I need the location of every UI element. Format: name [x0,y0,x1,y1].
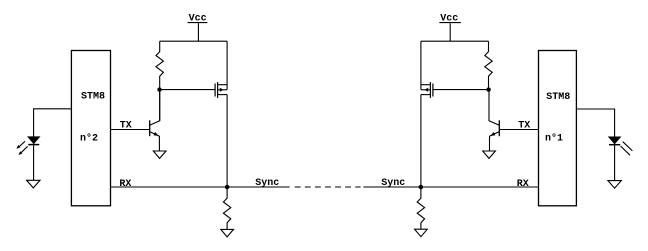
LED D1 cathode bar [609,144,620,146]
MOSFET T2 body arrow [220,88,224,92]
transistor Q2 (NPN) base bar [149,120,151,136]
Vcc right vertical stub [449,23,451,41]
svg-text:Vcc: Vcc [189,13,207,24]
wire LED to ground [33,145,35,180]
MOSFET T1 body stub [421,89,431,91]
wire T2 drain to rail [226,41,228,90]
MOSFET T1 drain stub [421,84,431,86]
svg-text:RX: RX [517,179,529,190]
svg-text:n°2: n°2 [80,133,98,145]
svg-text:Sync: Sync [255,178,279,189]
Vcc left underline [188,22,208,24]
svg-text:RX: RX [119,179,131,190]
transistor Q2 emitter arrow [154,132,159,136]
MOSFET T1 body arrow [424,88,428,92]
ground below LED D1 [608,181,621,189]
MOSFET T1 channel bar [429,82,431,98]
MOSFET T2 body stub [218,89,228,91]
wire LED branch from U1 right pin [576,109,614,137]
wire T2 source to RX line [226,95,228,187]
wire RX right / Sync line [363,186,538,188]
LED D2 cathode bar [28,144,39,146]
ground below R4 [221,229,234,237]
transistor Q1 (NPN) collector [489,90,499,126]
svg-text:STM8: STM8 [546,92,570,103]
LED D2 light arrow 2 [19,146,28,155]
node junction RX/source right [419,185,424,190]
node junction R2/gate/collector [157,87,161,91]
MOSFET T2 source stub [218,94,228,96]
resistor R3 (pull-down, right) [417,187,424,229]
MOSFET T2 gate bar [214,84,216,97]
svg-text:TX: TX [120,120,132,131]
wire TX from U2 to Q2 base [111,129,150,131]
LED D1 light ray 1 [623,142,633,151]
svg-text:STM8: STM8 [81,92,105,103]
node junction R1/gate/collector right [486,87,490,91]
MCU U2 box (STM8 n°2) [71,51,110,206]
Vcc left vertical stub [197,23,199,41]
svg-text:TX: TX [518,121,530,132]
LED D2 anode triangle [28,137,39,144]
transistor Q1 base bar [498,120,500,136]
svg-text:n°1: n°1 [545,133,563,145]
Vcc right underline [439,22,461,24]
node junction RX/source left [225,185,230,190]
ground below Q1 emitter [483,151,496,158]
Vcc rail left [160,40,228,42]
wire gate right [433,89,488,91]
transistor Q2 emitter [150,132,160,151]
MOSFET T1 gate bar [432,84,434,97]
LED D1 light ray 2 [621,146,631,155]
transistor Q1 emitter arrow [490,132,495,136]
wire TX from Q1 base to U1 [500,129,539,131]
resistor R4 (pull-down, left) [223,187,230,229]
LED D2 light arrow 1 [16,141,25,149]
wire LED branch from U2 left pin [34,109,72,137]
transistor Q1 emitter [490,132,500,151]
wire T1 drain to rail [420,41,422,90]
wire gate left [160,89,215,91]
ground below LED D2 [27,180,40,188]
MOSFET T2 drain stub [218,84,228,86]
wire T1 source to RX line [420,95,422,187]
LED D1 anode triangle [609,137,620,144]
wire Sync dashed link [295,186,361,188]
resistor R1 (pull-up, right) [485,41,492,89]
resistor R2 (pull-up, left) [156,41,163,121]
ground below R3 [415,229,428,237]
Vcc rail right [421,40,489,42]
svg-text:Vcc: Vcc [440,13,458,24]
MOSFET T2 channel bar [217,82,219,98]
MCU U1 box (STM8 n°1) [539,51,577,206]
transistor Q2 collector [150,90,160,125]
wire LED to ground right [614,145,616,180]
MOSFET T1 source stub [421,94,431,96]
ground below Q2 emitter [153,151,166,158]
wire RX left / Sync line [111,186,290,188]
svg-text:Sync: Sync [381,178,405,189]
